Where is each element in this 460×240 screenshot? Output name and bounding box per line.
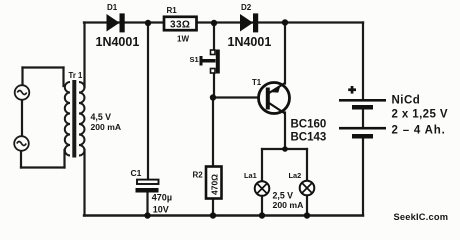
svg-text:470Ω: 470Ω [210,174,220,195]
svg-text:1N4001: 1N4001 [96,35,140,49]
svg-text:200 mA: 200 mA [273,200,305,210]
svg-text:NiCd: NiCd [392,95,421,107]
svg-text:470µ: 470µ [152,193,172,203]
svg-text:2,5 V: 2,5 V [273,191,294,201]
svg-text:33Ω: 33Ω [170,20,190,31]
svg-text:1N4001: 1N4001 [228,35,272,49]
svg-text:10V: 10V [153,204,169,214]
svg-text:S1: S1 [190,55,199,64]
svg-text:4,5 V: 4,5 V [91,112,112,122]
svg-text:D2: D2 [241,3,252,12]
svg-text:T1: T1 [252,78,262,87]
svg-text:1W: 1W [177,35,189,44]
svg-text:R2: R2 [193,170,204,179]
svg-text:R1: R1 [167,6,178,15]
svg-text:200 mA: 200 mA [91,122,122,132]
svg-text:BC143: BC143 [291,132,327,144]
svg-text:La1: La1 [244,171,257,180]
svg-text:2 x 1,25 V: 2 x 1,25 V [392,109,448,121]
svg-text:La2: La2 [289,171,302,180]
svg-text:BC160: BC160 [291,119,327,131]
svg-text:D1: D1 [107,3,118,12]
svg-text:2 – 4 Ah.: 2 – 4 Ah. [392,125,446,137]
svg-text:C1: C1 [131,168,142,178]
svg-text:SeekIC.com: SeekIC.com [394,212,449,222]
svg-text:Tr 1: Tr 1 [69,71,84,80]
